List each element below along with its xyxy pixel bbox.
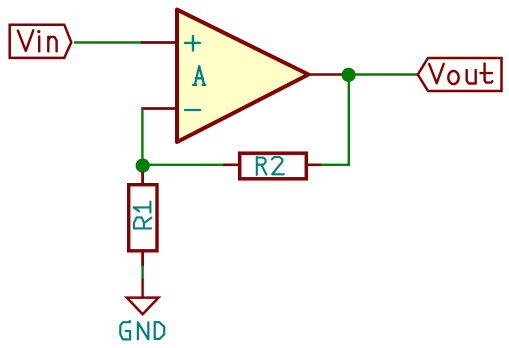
resistor R1 — [129, 172, 157, 267]
value label R2 — [257, 157, 284, 175]
pin + input — [141, 41, 178, 44]
net label Vin — [10, 25, 72, 58]
value label R1 (rotated) — [134, 202, 152, 229]
pin output — [305, 73, 342, 76]
designator A — [193, 66, 205, 85]
minus marker — [185, 109, 200, 111]
ground GND — [120, 279, 164, 340]
pin R2 left — [223, 164, 241, 167]
ground triangle — [127, 298, 159, 315]
wire output node down and left to R2 right — [321, 75, 349, 165]
op-amp A — [141, 10, 342, 142]
pin R1 top — [141, 172, 144, 185]
pin GND — [141, 279, 143, 298]
wire R1 to GND — [141, 266, 143, 280]
pin R1 bottom — [141, 251, 144, 267]
op-amp body — [177, 10, 309, 142]
pin R2 right — [305, 164, 322, 167]
wire feedback node to R2 left — [143, 164, 224, 166]
label GND — [120, 321, 164, 340]
node feedback junction — [136, 159, 150, 173]
wire output node to Vout — [355, 73, 417, 75]
net label Vout — [418, 58, 502, 91]
plus marker — [185, 36, 200, 50]
wire Vin to op-amp non-inverting input — [74, 41, 142, 43]
pin - input — [141, 107, 178, 110]
resistor R2 — [223, 153, 322, 179]
node output junction — [342, 68, 356, 82]
wire inverting input to feedback node — [141, 109, 143, 166]
